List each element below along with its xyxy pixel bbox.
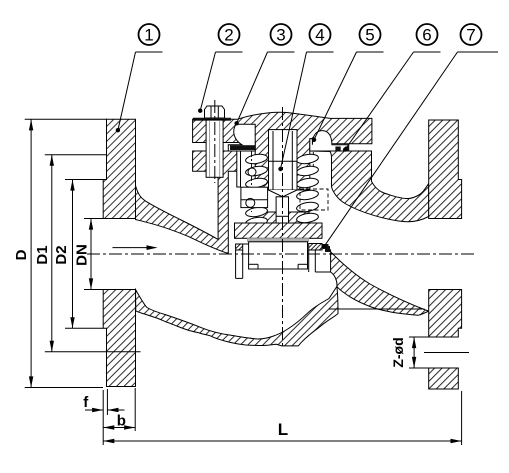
callout balloon 4 <box>310 24 331 45</box>
right disc guide bracket <box>310 131 349 151</box>
D2 extension lines <box>65 179 103 181</box>
b dimension <box>134 388 136 431</box>
spring left coil <box>245 153 268 228</box>
left bracket guide leg <box>237 151 241 187</box>
svg-text:DN: DN <box>74 244 91 266</box>
D1 dimension line <box>51 155 53 352</box>
spring retainer left <box>241 187 268 207</box>
bolt nut <box>205 106 225 118</box>
left disc guide bracket <box>228 124 255 151</box>
D extension lines <box>25 118 107 120</box>
callout balloon 3 <box>271 24 292 45</box>
svg-text:D1: D1 <box>34 245 51 264</box>
stem guide bore <box>269 130 298 190</box>
right flange lower half below bolt hole <box>429 368 459 389</box>
DN extension lines <box>84 218 103 220</box>
flow arrow <box>113 247 153 249</box>
bottom wall band of body <box>136 286 339 346</box>
valve disc <box>235 223 323 238</box>
svg-text:7: 7 <box>466 25 475 44</box>
callout balloon 1 <box>139 24 160 45</box>
inlet upper wall band, left neck wall and bolt lug <box>136 151 240 254</box>
seat bore box <box>249 242 308 269</box>
valve stem <box>269 131 298 223</box>
left bracket clamp bar <box>230 145 255 150</box>
svg-text:L: L <box>278 420 288 439</box>
bolt centerline <box>214 100 216 183</box>
callout balloon 5 <box>360 24 381 45</box>
right bracket hinge axis <box>312 152 314 170</box>
vertical stem centerline <box>282 107 284 348</box>
partition band between seat and outlet <box>325 246 429 315</box>
svg-text:b: b <box>117 413 126 430</box>
D2 dimension line <box>72 180 74 329</box>
callout balloon 2 <box>219 24 240 45</box>
callout balloon 6 <box>417 24 438 45</box>
hidden spring seat right dashed <box>300 189 328 210</box>
f dimension <box>102 390 104 445</box>
bolt hole edge lines <box>429 336 459 338</box>
seat support ledge <box>315 271 330 273</box>
svg-text:Z-ød: Z-ød <box>390 337 406 367</box>
bolt hole centerline <box>424 352 469 354</box>
D1 extension lines <box>45 154 107 156</box>
right flange lower half above bolt hole <box>429 290 462 338</box>
DN dimension line <box>90 219 92 290</box>
right flange upper half <box>429 120 462 219</box>
right bracket gasket marks <box>335 147 340 152</box>
svg-text:2: 2 <box>224 25 233 44</box>
leader line 1 <box>136 51 163 53</box>
disc central boss <box>257 212 309 223</box>
left bracket hinge axis <box>251 151 253 212</box>
callout balloon 7 <box>461 24 482 45</box>
leader line 6 <box>414 51 441 53</box>
leader line 7 <box>458 51 499 53</box>
leader line 4 <box>307 51 334 53</box>
Z-od extension lines <box>409 336 429 338</box>
spring right coil <box>296 153 319 224</box>
leader line 3 <box>268 51 295 53</box>
svg-text:6: 6 <box>422 25 431 44</box>
leader line 2 <box>216 51 243 53</box>
svg-text:D2: D2 <box>53 245 70 264</box>
svg-text:D: D <box>13 249 30 260</box>
valve body left flange lower half <box>103 290 135 387</box>
svg-text:4: 4 <box>315 25 324 44</box>
horizontal centerline <box>87 253 475 255</box>
bolt shank <box>206 120 223 177</box>
leader line 5 <box>357 51 384 53</box>
bonnet cover <box>193 112 372 190</box>
Z-od dimension line <box>413 337 415 368</box>
left bracket hinge pin <box>248 168 256 176</box>
gap between cover and body flange <box>193 142 256 144</box>
seat ring right section <box>309 244 322 251</box>
svg-text:3: 3 <box>276 25 285 44</box>
L dimension <box>461 391 463 445</box>
svg-text:1: 1 <box>144 25 153 44</box>
D dimension line <box>30 119 32 387</box>
body neck right wall with outlet top band <box>310 151 429 222</box>
bolt washer lines <box>193 117 231 119</box>
svg-text:5: 5 <box>365 25 374 44</box>
seat ring right clamp mark <box>322 244 330 252</box>
seat ring left section <box>236 244 243 250</box>
valve body left flange upper half <box>103 119 135 218</box>
disc seal facing <box>247 238 308 242</box>
outlet port edge line <box>329 308 425 310</box>
